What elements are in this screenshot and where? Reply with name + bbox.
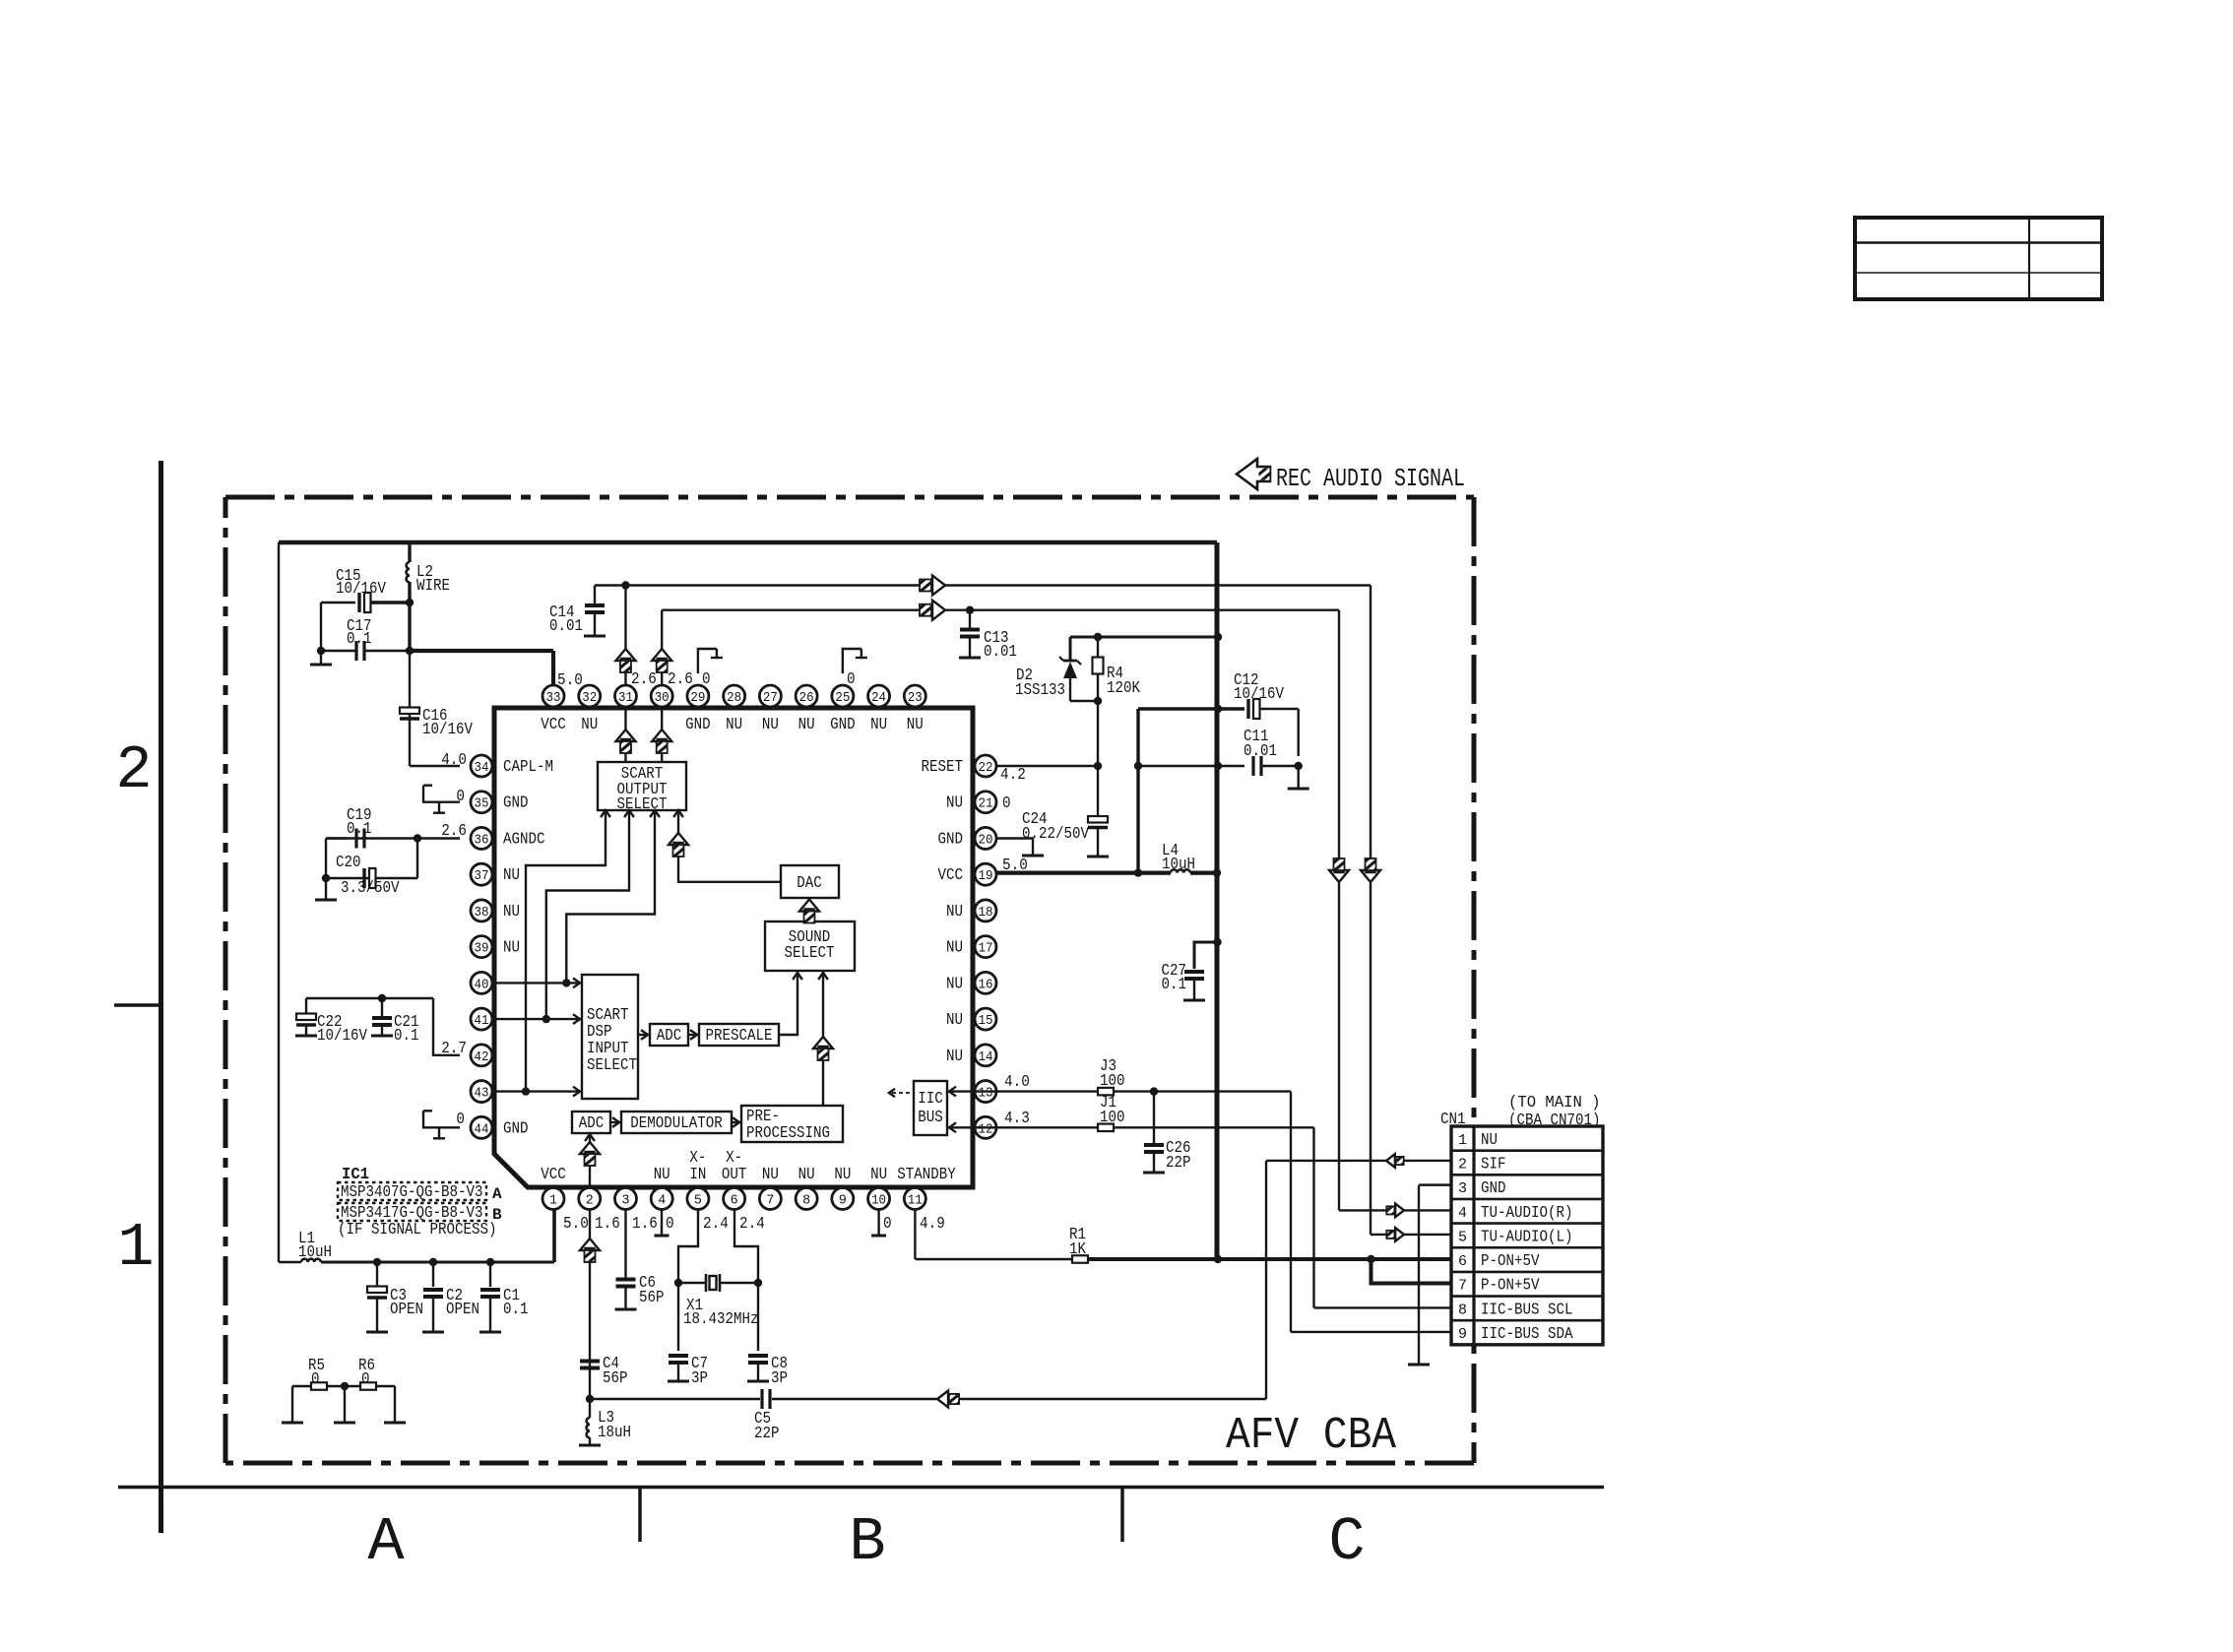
svg-text:2: 2	[115, 735, 152, 805]
svg-text:0: 0	[1002, 794, 1011, 813]
svg-text:AGNDC: AGNDC	[503, 830, 545, 849]
svg-text:0.01: 0.01	[1244, 742, 1277, 761]
svg-text:17: 17	[979, 941, 993, 957]
svg-text:41: 41	[475, 1013, 489, 1029]
svg-text:NU: NU	[1481, 1131, 1498, 1150]
svg-text:22P: 22P	[754, 1425, 780, 1443]
svg-text:20: 20	[979, 832, 993, 848]
svg-text:8: 8	[802, 1193, 810, 1209]
svg-text:32: 32	[582, 690, 597, 706]
svg-text:NU: NU	[946, 903, 963, 921]
svg-text:1.6: 1.6	[632, 1215, 658, 1234]
svg-text:10/16V: 10/16V	[422, 721, 474, 739]
svg-text:8: 8	[1458, 1302, 1467, 1318]
svg-text:MSP3407G-QG-B8-V3: MSP3407G-QG-B8-V3	[341, 1183, 483, 1202]
svg-text:(CBA CN701): (CBA CN701)	[1508, 1112, 1601, 1130]
svg-text:7: 7	[766, 1193, 774, 1209]
svg-text:1.6: 1.6	[595, 1215, 620, 1234]
svg-text:28: 28	[727, 690, 741, 706]
svg-text:13: 13	[979, 1086, 993, 1102]
svg-text:4: 4	[1458, 1205, 1467, 1222]
svg-text:2.4: 2.4	[703, 1215, 729, 1234]
svg-text:NU: NU	[946, 1011, 963, 1030]
svg-text:B: B	[849, 1507, 885, 1577]
svg-text:38: 38	[475, 905, 489, 921]
svg-text:BUS: BUS	[918, 1109, 943, 1127]
svg-text:4.0: 4.0	[441, 751, 467, 770]
svg-text:DEMODULATOR: DEMODULATOR	[630, 1114, 723, 1133]
svg-text:23: 23	[908, 690, 923, 706]
svg-text:A: A	[367, 1507, 405, 1577]
svg-text:0: 0	[456, 788, 465, 806]
svg-text:CAPL-M: CAPL-M	[503, 758, 553, 777]
svg-text:NU: NU	[503, 903, 520, 921]
svg-text:NU: NU	[946, 794, 963, 813]
svg-text:5.0: 5.0	[1002, 857, 1028, 875]
svg-text:TU-AUDIO(L): TU-AUDIO(L)	[1481, 1228, 1573, 1246]
svg-text:GND: GND	[830, 716, 856, 734]
svg-text:11: 11	[908, 1193, 923, 1209]
svg-text:26: 26	[799, 690, 814, 706]
svg-text:OPEN: OPEN	[390, 1301, 423, 1319]
svg-text:NU: NU	[798, 716, 815, 734]
svg-text:NU: NU	[762, 716, 779, 734]
svg-text:NU: NU	[870, 716, 887, 734]
svg-text:VCC: VCC	[541, 1166, 566, 1184]
svg-text:1: 1	[117, 1213, 154, 1283]
svg-text:36: 36	[475, 832, 489, 848]
svg-text:NU: NU	[798, 1166, 815, 1184]
svg-text:3P: 3P	[691, 1369, 708, 1388]
svg-text:IN: IN	[689, 1166, 706, 1184]
svg-text:IIC-BUS SCL: IIC-BUS SCL	[1481, 1301, 1573, 1319]
svg-text:10: 10	[871, 1193, 886, 1209]
svg-text:5.0: 5.0	[563, 1215, 589, 1234]
svg-text:0: 0	[311, 1370, 320, 1389]
svg-text:NU: NU	[503, 866, 520, 885]
svg-text:27: 27	[763, 690, 778, 706]
svg-text:(TO MAIN ): (TO MAIN )	[1508, 1094, 1601, 1112]
svg-text:OUT: OUT	[722, 1166, 747, 1184]
svg-text:10uH: 10uH	[298, 1243, 332, 1262]
svg-text:5: 5	[694, 1193, 702, 1209]
svg-text:NU: NU	[762, 1166, 779, 1184]
svg-text:0.01: 0.01	[549, 617, 583, 636]
svg-text:C: C	[1328, 1507, 1365, 1577]
svg-text:18uH: 18uH	[598, 1424, 631, 1442]
svg-text:5: 5	[1458, 1229, 1467, 1245]
svg-text:56P: 56P	[603, 1369, 628, 1388]
svg-text:IIC: IIC	[918, 1090, 943, 1109]
svg-text:4: 4	[658, 1193, 666, 1209]
svg-text:1K: 1K	[1069, 1240, 1087, 1259]
svg-text:31: 31	[618, 690, 633, 706]
svg-text:GND: GND	[685, 716, 711, 734]
svg-text:CN1: CN1	[1440, 1111, 1466, 1129]
svg-text:GND: GND	[938, 830, 964, 849]
svg-text:2.6: 2.6	[631, 670, 657, 689]
svg-text:AFV CBA: AFV CBA	[1226, 1411, 1396, 1461]
svg-text:NU: NU	[946, 1048, 963, 1066]
svg-text:0.1: 0.1	[1162, 976, 1187, 994]
svg-text:GND: GND	[1481, 1179, 1506, 1198]
svg-text:18.432MHz: 18.432MHz	[683, 1310, 759, 1329]
svg-text:7: 7	[1458, 1278, 1467, 1295]
svg-text:GND: GND	[503, 1119, 529, 1138]
svg-text:24: 24	[871, 690, 886, 706]
svg-text:GND: GND	[503, 794, 529, 813]
svg-text:10/16V: 10/16V	[317, 1027, 368, 1046]
svg-text:2.7: 2.7	[441, 1040, 467, 1058]
svg-text:RESET: RESET	[922, 758, 964, 777]
svg-text:19: 19	[979, 868, 993, 884]
svg-text:ADC: ADC	[657, 1027, 682, 1046]
svg-text:NU: NU	[581, 716, 598, 734]
svg-text:0: 0	[456, 1111, 465, 1129]
svg-text:33: 33	[546, 690, 561, 706]
svg-text:0: 0	[883, 1215, 892, 1234]
svg-text:2: 2	[586, 1193, 594, 1209]
svg-text:9: 9	[1458, 1326, 1467, 1343]
svg-text:34: 34	[475, 760, 489, 776]
svg-text:9: 9	[839, 1193, 847, 1209]
svg-text:3P: 3P	[771, 1369, 788, 1388]
svg-text:DAC: DAC	[797, 874, 822, 893]
svg-text:12: 12	[979, 1121, 993, 1137]
svg-text:56P: 56P	[639, 1289, 665, 1307]
svg-text:OPEN: OPEN	[446, 1301, 479, 1319]
svg-text:44: 44	[475, 1121, 489, 1137]
svg-text:30: 30	[655, 690, 670, 706]
svg-text:0.1: 0.1	[347, 820, 372, 839]
svg-text:REC AUDIO SIGNAL: REC AUDIO SIGNAL	[1276, 464, 1465, 493]
svg-text:3: 3	[1458, 1180, 1467, 1197]
svg-text:100: 100	[1100, 1109, 1125, 1127]
svg-text:0: 0	[361, 1370, 370, 1389]
svg-text:NU: NU	[946, 939, 963, 958]
svg-text:15: 15	[979, 1013, 993, 1029]
svg-text:NU: NU	[654, 1166, 670, 1184]
svg-text:NU: NU	[907, 716, 924, 734]
svg-text:ADC: ADC	[579, 1114, 605, 1133]
svg-text:1: 1	[1458, 1132, 1467, 1149]
svg-text:22P: 22P	[1166, 1154, 1191, 1173]
svg-text:P-ON+5V: P-ON+5V	[1481, 1277, 1540, 1296]
svg-text:0.1: 0.1	[394, 1027, 419, 1046]
svg-text:4.0: 4.0	[1004, 1073, 1030, 1092]
svg-text:SIF: SIF	[1481, 1155, 1506, 1174]
svg-text:0.1: 0.1	[503, 1301, 529, 1319]
svg-text:0: 0	[666, 1215, 674, 1234]
svg-text:TU-AUDIO(R): TU-AUDIO(R)	[1481, 1204, 1573, 1223]
svg-text:STANDBY: STANDBY	[897, 1166, 956, 1184]
svg-text:NU: NU	[834, 1166, 851, 1184]
svg-text:18: 18	[979, 905, 993, 921]
svg-text:C20: C20	[336, 854, 361, 872]
svg-text:120K: 120K	[1107, 679, 1141, 698]
svg-text:25: 25	[835, 690, 850, 706]
svg-text:0: 0	[847, 670, 856, 689]
svg-text:29: 29	[690, 690, 705, 706]
svg-text:PRESCALE: PRESCALE	[706, 1027, 773, 1046]
svg-text:37: 37	[475, 868, 489, 884]
svg-text:2.4: 2.4	[739, 1215, 765, 1234]
svg-text:42: 42	[475, 1049, 489, 1065]
svg-text:43: 43	[475, 1086, 489, 1102]
svg-text:A: A	[492, 1185, 502, 1203]
svg-text:VCC: VCC	[541, 716, 566, 734]
svg-text:100: 100	[1100, 1072, 1125, 1091]
svg-text:PROCESSING: PROCESSING	[746, 1124, 830, 1143]
svg-text:16: 16	[979, 977, 993, 992]
svg-text:39: 39	[475, 941, 489, 957]
svg-text:2: 2	[1458, 1156, 1467, 1173]
svg-text:1SS133: 1SS133	[1015, 681, 1065, 700]
svg-text:2.6: 2.6	[668, 670, 693, 689]
svg-text:21: 21	[979, 796, 993, 812]
svg-text:4.9: 4.9	[920, 1215, 945, 1234]
svg-text:NU: NU	[870, 1166, 887, 1184]
svg-text:SELECT: SELECT	[617, 795, 668, 814]
svg-text:NU: NU	[946, 975, 963, 993]
svg-text:SELECT: SELECT	[785, 944, 835, 963]
svg-text:NU: NU	[726, 716, 742, 734]
svg-text:0.1: 0.1	[347, 630, 372, 649]
svg-text:0: 0	[702, 670, 711, 689]
svg-text:VCC: VCC	[938, 866, 964, 885]
svg-text:4.3: 4.3	[1004, 1110, 1030, 1128]
svg-text:(IF SIGNAL PROCESS): (IF SIGNAL PROCESS)	[338, 1221, 497, 1239]
svg-text:P-ON+5V: P-ON+5V	[1481, 1252, 1540, 1271]
svg-text:10/16V: 10/16V	[336, 580, 387, 599]
svg-text:10/16V: 10/16V	[1234, 685, 1285, 704]
svg-text:3: 3	[621, 1193, 629, 1209]
svg-text:1: 1	[549, 1193, 557, 1209]
svg-text:6: 6	[731, 1193, 738, 1209]
svg-text:40: 40	[475, 977, 489, 992]
svg-text:22: 22	[979, 760, 993, 776]
svg-text:4.2: 4.2	[1000, 766, 1026, 785]
svg-text:NU: NU	[503, 939, 520, 958]
svg-text:35: 35	[475, 796, 489, 812]
svg-text:10uH: 10uH	[1162, 856, 1195, 874]
svg-text:WIRE: WIRE	[416, 577, 450, 596]
svg-text:14: 14	[979, 1049, 993, 1065]
svg-text:0.01: 0.01	[984, 643, 1017, 662]
svg-text:SELECT: SELECT	[587, 1056, 637, 1075]
svg-text:IIC-BUS SDA: IIC-BUS SDA	[1481, 1325, 1573, 1344]
svg-text:2.6: 2.6	[441, 822, 467, 841]
svg-text:6: 6	[1458, 1253, 1467, 1270]
svg-text:3.3/50V: 3.3/50V	[341, 879, 400, 898]
